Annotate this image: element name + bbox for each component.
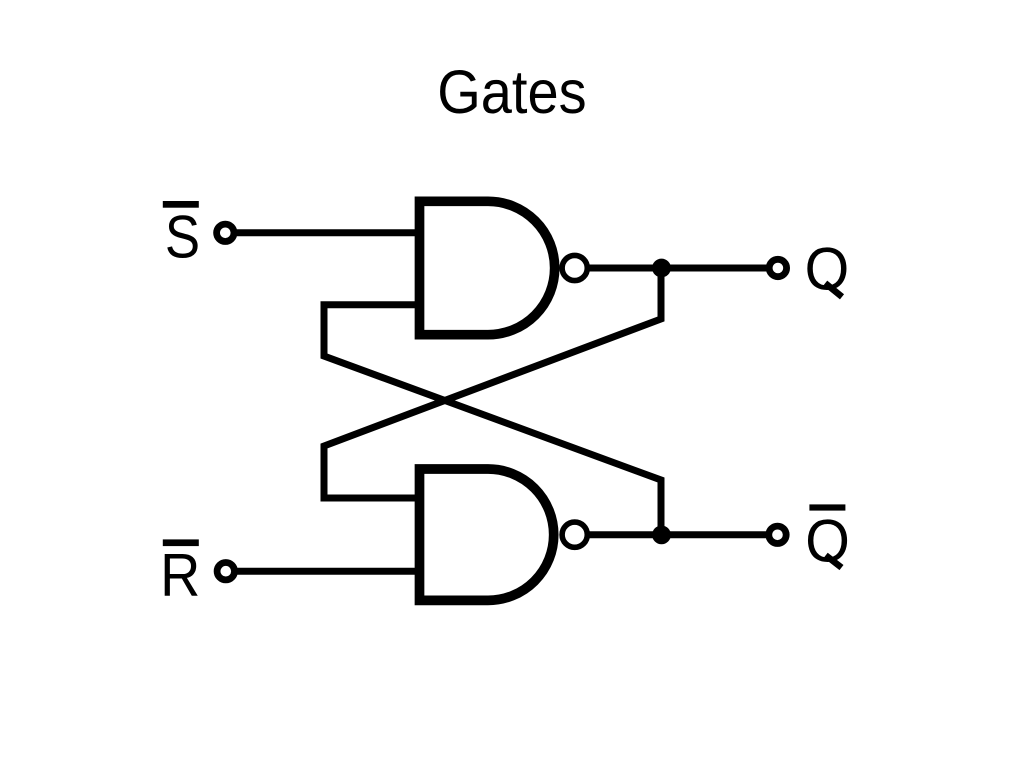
svg-text:O: O [805, 234, 850, 302]
wire: U2 output to Qbar terminal [588, 531, 778, 538]
label Rbar overline [163, 539, 199, 546]
label Sbar overline [163, 201, 199, 208]
junction node Q [652, 259, 671, 278]
svg-text:Gates: Gates [437, 58, 586, 126]
wire: S input to U1 pin 1 [225, 229, 422, 236]
NAND gate U2 inversion bubble [562, 522, 587, 547]
terminal Sbar [217, 224, 234, 241]
wire: Qbar feedback to U1 pin 2 [324, 305, 661, 535]
terminal Rbar [217, 563, 234, 580]
wire: U1 output to Q terminal [588, 265, 778, 272]
label Qbar overline [809, 504, 845, 510]
NAND gate U1 body [420, 201, 555, 334]
wire: R input to U2 pin 2 [226, 568, 422, 575]
terminal Qbar [769, 526, 786, 543]
wire: Q feedback to U2 pin 1 [324, 268, 661, 498]
NAND gate U1 inversion bubble [562, 255, 587, 280]
svg-text:S: S [165, 203, 200, 271]
NAND gate U2 body [420, 469, 554, 600]
junction node Qbar [652, 526, 671, 545]
svg-text:R: R [160, 541, 200, 609]
svg-text:O: O [805, 507, 850, 575]
terminal Q [769, 259, 786, 276]
